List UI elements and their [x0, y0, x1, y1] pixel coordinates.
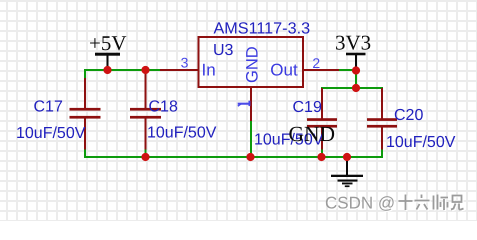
- svg-text:GND: GND: [289, 122, 336, 146]
- capacitor C19: [307, 88, 337, 150]
- junction C18 top: [141, 66, 149, 74]
- power port GND label: [289, 122, 336, 146]
- pin number 2: [312, 55, 320, 71]
- svg-text:CSDN @: CSDN @: [325, 194, 395, 213]
- wire C17 top lead stub: [84, 69, 86, 80]
- capacitor C17: [70, 78, 101, 150]
- pin 1 GND stub: [250, 86, 252, 121]
- junction pin1 bottom: [246, 153, 254, 161]
- pin 2 Out stub: [303, 69, 339, 71]
- svg-text:AMS1117-3.3: AMS1117-3.3: [214, 20, 311, 38]
- junction +5V on top rail: [103, 66, 111, 74]
- label C17 designator: [34, 99, 63, 116]
- label C20 value 10uF/50V: [386, 134, 456, 151]
- pin name Out: [270, 61, 298, 80]
- capacitor C18: [130, 70, 161, 150]
- wire top rail +5V net: [84, 69, 161, 71]
- label AMS1117-3.3 comment: [214, 20, 311, 38]
- svg-text:3: 3: [181, 55, 189, 71]
- power port 3V3: [335, 31, 371, 71]
- label C17 value 10uF/50V: [16, 125, 86, 142]
- pin name GND rotated: [243, 46, 261, 83]
- wire pin2 to 3V3 node: [339, 69, 357, 71]
- wire C20 bottom stub: [381, 148, 383, 157]
- svg-text:10uF/50V: 10uF/50V: [147, 125, 217, 142]
- junction C19-C20 rail: [352, 84, 360, 92]
- svg-text:GND: GND: [243, 46, 261, 83]
- glyph shi (master): [434, 195, 449, 211]
- label C18 designator: [149, 99, 178, 116]
- ground symbol: [331, 157, 363, 187]
- label U3 designator: [213, 42, 234, 59]
- svg-text:In: In: [202, 61, 216, 80]
- junction C19 bottom: [317, 153, 325, 161]
- pin name In: [202, 61, 216, 80]
- glyph liu (six): [415, 195, 430, 210]
- glyph xiong (elder brother): [451, 196, 464, 210]
- svg-text:2: 2: [312, 55, 320, 71]
- svg-text:10uF/50V: 10uF/50V: [16, 125, 86, 142]
- wire bottom GND rail: [84, 156, 383, 158]
- junction C18 bottom: [141, 153, 149, 161]
- regulator U3 box: [199, 37, 304, 87]
- wire 3V3 node down: [355, 70, 357, 88]
- junction 3V3 node: [352, 66, 360, 74]
- svg-text:U3: U3: [213, 42, 234, 59]
- svg-text:3V3: 3V3: [335, 31, 371, 55]
- svg-text:10uF/50V: 10uF/50V: [386, 134, 456, 151]
- svg-text:Out: Out: [270, 61, 298, 80]
- wire C19 bottom stub: [321, 148, 323, 157]
- pin number 3: [181, 55, 189, 71]
- power port +5V: [89, 31, 127, 70]
- pin number 1: [238, 101, 250, 107]
- wire GND pin1 down: [250, 120, 252, 157]
- wire C19-C20 top rail: [321, 87, 383, 89]
- label C18 value 10uF/50V: [147, 125, 217, 142]
- svg-text:C17: C17: [34, 99, 63, 116]
- svg-text:C19: C19: [293, 99, 322, 116]
- wire C18 bottom stub: [145, 148, 147, 157]
- wire C17 bottom stub: [84, 148, 86, 158]
- pin 3 In stub: [160, 69, 199, 71]
- label C20 designator: [394, 107, 423, 124]
- junction ground symbol: [343, 153, 351, 161]
- svg-text:+5V: +5V: [89, 31, 127, 55]
- watermark CSDN @shiliushixiong: [325, 194, 465, 214]
- glyph shi (ten): [399, 195, 413, 211]
- svg-text:C18: C18: [149, 99, 178, 116]
- label C19 designator: [293, 99, 322, 116]
- svg-text:C20: C20: [394, 107, 423, 124]
- capacitor C20: [367, 88, 397, 150]
- label C19 value 10uF/50V: [254, 132, 324, 149]
